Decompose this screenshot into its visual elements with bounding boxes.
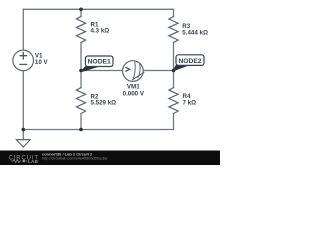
svg-text:4.3 kΩ: 4.3 kΩ [91, 28, 110, 35]
svg-text:http://circuitlab.com/c4e45db5: http://circuitlab.com/c4e45db5d55uc6a [42, 157, 108, 161]
svg-text:5.529 kΩ: 5.529 kΩ [91, 100, 117, 107]
svg-text:5.444 kΩ: 5.444 kΩ [182, 30, 208, 37]
svg-text:connort36 / Lab 2 Circuit 2: connort36 / Lab 2 Circuit 2 [42, 151, 93, 156]
svg-text:NODE2: NODE2 [178, 58, 201, 65]
svg-text:LAB: LAB [28, 159, 39, 164]
svg-text:7 kΩ: 7 kΩ [183, 100, 197, 107]
svg-text:NODE1: NODE1 [88, 59, 111, 66]
svg-text:10 V: 10 V [35, 59, 49, 66]
svg-text:0.000 V: 0.000 V [123, 90, 145, 97]
